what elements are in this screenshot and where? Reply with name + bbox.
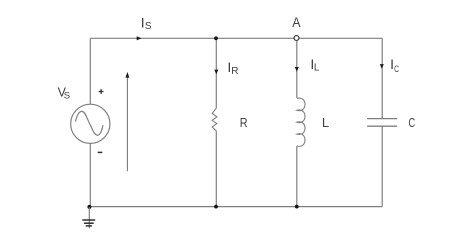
wire: R branch bottom xyxy=(215,131,217,206)
wire: top bus from source to capacitor branch xyxy=(90,37,382,39)
ground stem xyxy=(88,207,90,228)
resistor R zigzag xyxy=(212,108,217,131)
ground bar 2 xyxy=(84,222,94,224)
ground bar 3 xyxy=(86,225,92,227)
current arrow IR head xyxy=(214,70,218,75)
svg-text:S: S xyxy=(64,91,70,102)
label IC xyxy=(390,56,399,74)
reference arrow head xyxy=(125,72,129,78)
label IL xyxy=(310,56,320,74)
svg-text:L: L xyxy=(322,115,329,130)
junction dot bottom of R branch xyxy=(214,205,218,209)
wire: C branch bottom xyxy=(381,126,383,206)
wire: R branch top xyxy=(215,38,217,108)
junction dot top of R branch xyxy=(214,36,218,40)
label IR xyxy=(227,59,238,77)
AC source sine wave xyxy=(75,111,103,135)
wire: bottom bus xyxy=(90,206,382,208)
wire: left vertical, source top lead xyxy=(89,38,91,104)
current arrow IL head xyxy=(295,67,299,72)
wire: C branch top xyxy=(381,38,383,118)
label VS xyxy=(58,86,71,102)
ground bar 1 xyxy=(82,219,95,221)
wire: L branch bottom xyxy=(296,146,298,207)
plus polarity mark xyxy=(99,89,104,94)
svg-text:R: R xyxy=(240,115,248,130)
junction dot bottom-left (ground tap) xyxy=(87,205,91,209)
svg-text:C: C xyxy=(394,64,399,74)
reference arrow (current direction) line xyxy=(126,77,128,171)
svg-text:R: R xyxy=(231,66,238,77)
svg-text:C: C xyxy=(408,115,415,130)
capacitor C bottom plate xyxy=(367,125,397,127)
inductor L coil xyxy=(297,98,305,146)
label IS xyxy=(141,15,152,32)
svg-text:S: S xyxy=(145,21,152,32)
svg-text:L: L xyxy=(314,63,320,74)
wire: source bottom lead xyxy=(89,143,91,206)
current arrow IS head xyxy=(137,36,142,40)
minus polarity mark xyxy=(98,151,103,153)
node A open circle xyxy=(294,36,299,41)
svg-text:A: A xyxy=(292,14,301,30)
capacitor C top plate xyxy=(367,118,397,120)
current arrow IC head xyxy=(380,64,384,69)
junction dot bottom of L branch xyxy=(295,205,299,209)
AC source VS circle xyxy=(71,104,110,143)
wire: L branch top xyxy=(296,41,298,98)
